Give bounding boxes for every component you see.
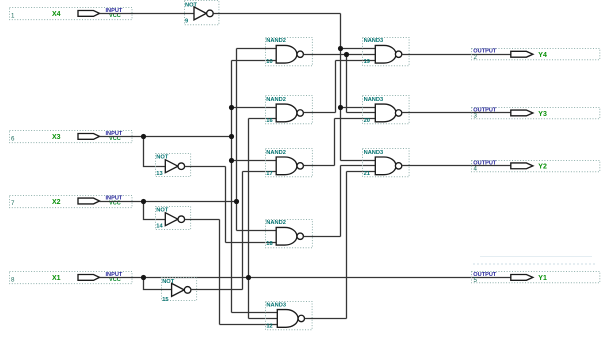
- wire NOT9 vertical x340.6 down to NAND21 in1: [340, 14, 342, 161]
- NAND2 gate U17: [266, 149, 313, 177]
- wire NAND12 vertical x346.3 up: [346, 172, 348, 319]
- wire X2 vertical x236.5: [236, 49, 238, 231]
- svg-text:1: 1: [11, 12, 15, 19]
- wire X1 jog down to NOT15: [144, 278, 172, 290]
- svg-text:NAND3: NAND3: [364, 150, 384, 156]
- wire NAND17 to NAND20 in3: [335, 118, 376, 120]
- svg-text:10: 10: [266, 59, 272, 65]
- wire NAND16 to NAND19 in3: [336, 60, 376, 62]
- wire NOT15 output: [191, 289, 243, 291]
- svg-text:NAND2: NAND2: [266, 97, 286, 103]
- wire NOT15 vertical x243.3: [242, 172, 244, 290]
- wire NAND18 output: [304, 236, 341, 238]
- svg-text:X3: X3: [52, 134, 61, 141]
- svg-text:Y2: Y2: [538, 164, 547, 171]
- wire NAND12 to NAND21 in3: [347, 171, 376, 173]
- junction NOT9/NAND20.in1: [338, 105, 343, 110]
- svg-text:NAND3: NAND3: [364, 38, 384, 44]
- svg-text:16: 16: [266, 118, 272, 124]
- NAND2 gate U18: [266, 220, 313, 248]
- output pin Y1: [472, 272, 600, 285]
- svg-text:NOT: NOT: [156, 207, 169, 213]
- wire NOT13 to NAND18 in2: [226, 242, 277, 244]
- wire NOT9 branch to NAND21 in1: [341, 160, 376, 162]
- svg-text:9: 9: [185, 18, 188, 24]
- wire NOT13 output: [185, 166, 226, 168]
- svg-text:NOT: NOT: [156, 155, 169, 161]
- svg-text:5: 5: [474, 277, 478, 284]
- svg-text:Y3: Y3: [538, 111, 547, 118]
- svg-text:8: 8: [11, 277, 15, 284]
- svg-text:NAND2: NAND2: [266, 220, 286, 226]
- svg-text:7: 7: [11, 200, 15, 207]
- wire NOT9 branch to NAND20 in1: [341, 107, 376, 109]
- wire NOT14 to NAND12 in3: [220, 324, 279, 326]
- wire NAND21 output to Y2: [402, 165, 511, 167]
- wire X1 row through to output Y1: [100, 277, 511, 279]
- NAND2 gate U10: [266, 38, 313, 66]
- faint artifact line above Y1: [480, 256, 592, 258]
- output pin Y4: [472, 49, 600, 61]
- NOT gate U9: [185, 1, 219, 25]
- input pin X2: [10, 196, 133, 208]
- wire NOT13 vertical x225.5: [225, 167, 227, 243]
- output pin Y3: [472, 107, 600, 119]
- wire NOT9 output to corner: [214, 13, 341, 15]
- wire NOT14 vertical x219.6: [219, 220, 221, 325]
- NOT gate U15: [162, 278, 197, 304]
- NAND3 gate U21: [363, 149, 410, 177]
- junction X2 row / vertical: [234, 199, 239, 204]
- svg-text:21: 21: [364, 171, 370, 177]
- wire X3 to NAND17 in1: [232, 160, 277, 162]
- wire X1 to NAND12 in2: [249, 318, 279, 320]
- svg-text:Y1: Y1: [538, 275, 547, 282]
- svg-text:15: 15: [162, 297, 168, 303]
- wire X4 pin to NOT9 input: [100, 13, 195, 15]
- wire NAND12 output: [305, 318, 347, 320]
- svg-text:X2: X2: [52, 199, 61, 206]
- input pin X3: [10, 131, 133, 143]
- wire X2 jog down to NOT14: [144, 202, 166, 220]
- wire NAND17 output: [304, 165, 335, 167]
- svg-text:2: 2: [474, 54, 478, 61]
- svg-text:6: 6: [11, 136, 15, 143]
- wire NAND20 output to Y3: [402, 112, 511, 114]
- wire X3 to NAND12 in1: [232, 312, 279, 314]
- junction NAND10 output branch: [344, 52, 349, 57]
- svg-text:NAND2: NAND2: [266, 150, 286, 156]
- wire NAND16 output: [304, 112, 336, 114]
- NOT gate U13: [156, 154, 191, 177]
- svg-text:NAND3: NAND3: [266, 302, 286, 308]
- junction X3 row / vertical: [229, 134, 234, 139]
- wire X3 vertical x231: [231, 61, 233, 313]
- svg-text:X4: X4: [52, 11, 61, 18]
- wire NAND10 output to NAND19 in2: [304, 54, 376, 56]
- wire X3 to NAND10 in2: [232, 60, 277, 62]
- NOT gate U14: [156, 207, 191, 230]
- wire NOT15 to NAND17 in2: [243, 171, 277, 173]
- wire NAND10 to NAND20 in2: [347, 112, 376, 114]
- NAND3 gate U20: [363, 96, 410, 124]
- wire NAND17 vertical x334.6 up: [334, 119, 336, 166]
- svg-text:13: 13: [156, 171, 162, 177]
- svg-text:12: 12: [266, 323, 272, 329]
- svg-text:20: 20: [364, 118, 370, 124]
- junction X1/NOT15: [141, 275, 146, 280]
- junction X2/NOT14: [141, 199, 146, 204]
- svg-text:18: 18: [266, 241, 272, 247]
- wire NOT9 branch to NAND19 in1: [341, 48, 376, 50]
- wire NAND18 vertical x340.7 up: [340, 166, 342, 237]
- input pin X1: [10, 272, 133, 284]
- svg-text:3: 3: [474, 113, 478, 120]
- wire NAND19 output to Y4: [402, 54, 511, 56]
- wire X2 to NAND10 in1: [237, 48, 277, 50]
- svg-text:4: 4: [474, 166, 478, 173]
- wire X3 jog down to NOT13: [144, 137, 166, 167]
- svg-text:19: 19: [364, 59, 370, 65]
- wire NOT14 output: [185, 219, 220, 221]
- svg-text:NAND2: NAND2: [266, 38, 286, 44]
- wire NAND16 vertical x335.2 up: [335, 61, 337, 113]
- junction X3/NAND17.in1: [229, 158, 234, 163]
- svg-text:14: 14: [156, 224, 163, 230]
- svg-text:Y4: Y4: [538, 52, 547, 59]
- wire X1 vertical x248.3: [248, 119, 250, 319]
- junction X1 row / vertical: [246, 275, 251, 280]
- NAND2 gate U16: [266, 96, 313, 124]
- output pin Y2: [472, 160, 600, 172]
- wire NAND18 to NAND21 in2: [341, 165, 376, 167]
- faint dotted artifact above Y1: [473, 263, 596, 265]
- svg-text:17: 17: [266, 171, 272, 177]
- input pin X4: [10, 8, 133, 20]
- junction NOT9/NAND19.in1: [338, 46, 343, 51]
- svg-text:X1: X1: [52, 275, 61, 282]
- svg-text:NAND3: NAND3: [364, 97, 384, 103]
- wire X2 to NAND18 in1: [237, 230, 277, 232]
- wire NAND10 vertical x346.6: [346, 55, 348, 113]
- NAND3 gate U19: [363, 38, 410, 66]
- wire X3 to NAND16 in1: [232, 107, 277, 109]
- wire X2 row: [100, 201, 237, 203]
- NAND3 gate U12: [266, 302, 313, 330]
- wire X1 to NAND16 in2: [249, 118, 277, 120]
- wire X3 row: [100, 136, 232, 138]
- junction X3/NAND16.in1: [229, 105, 234, 110]
- junction X3/NOT13: [141, 134, 146, 139]
